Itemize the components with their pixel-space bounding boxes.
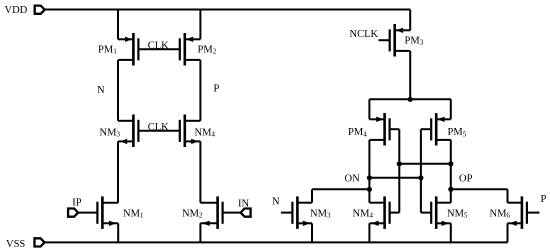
junction line A right (448, 161, 453, 166)
wire tail node distribution (369, 98, 450, 100)
junction line B right (418, 175, 423, 180)
svg-text:N: N (272, 197, 280, 208)
NM3-right channel (296, 196, 299, 229)
wire N stub to NM3 gate (281, 212, 293, 214)
wire OP down to NM6 drain (507, 189, 509, 202)
NM2 gate bar (222, 202, 224, 224)
junction line B left (367, 175, 372, 180)
NM5 channel (435, 196, 438, 229)
junction OP (448, 187, 453, 192)
NM6 drain/source bottom lead (508, 222, 522, 224)
svg-text:VSS: VSS (6, 239, 25, 250)
NM4-right channel (383, 196, 386, 229)
wire down to PM4 source (368, 99, 370, 119)
NM3-right drain/source bottom lead (297, 222, 312, 224)
NM6 source arrow (NMOS) (510, 221, 517, 226)
NM4-right drain/source bottom lead (369, 222, 384, 224)
PM1 gate bar (137, 38, 139, 60)
svg-text:P: P (214, 84, 220, 95)
wire IN to NM2 gate (223, 212, 241, 214)
PM5 channel (435, 113, 438, 146)
PM3 gate bar (389, 29, 391, 51)
PM1 source arrow (PMOS) (125, 37, 132, 42)
PM3 source arrow (PMOS) (396, 28, 403, 33)
wire VDD rail down to PM3 source (409, 10, 411, 31)
junction PM3 drain node (408, 97, 413, 102)
NM4-right drain/source top lead (369, 202, 384, 204)
NM6 drain/source top lead (508, 202, 522, 204)
svg-text:OP: OP (459, 174, 473, 185)
NM2 drain/source bottom lead (200, 222, 217, 224)
wire IP to NM1 gate (78, 212, 97, 214)
PM2 drain/source bottom lead (185, 59, 201, 61)
PM2 channel (184, 33, 187, 66)
PM2 drain/source top lead (185, 38, 201, 40)
svg-text:CLK: CLK (148, 40, 169, 51)
NM3-right gate lead (291, 212, 293, 214)
wire NM3 source to VSS (311, 223, 313, 242)
NM6 channel (521, 196, 524, 229)
IN port (241, 209, 251, 217)
NM2 source arrow (NMOS) (202, 221, 209, 226)
NM1 channel (101, 196, 104, 229)
wire PM5 gate / NM5 gate vertical (420, 129, 422, 212)
wire NM1 source to VSS (117, 223, 119, 242)
wire PM4 drain down to ON / NM4 drain (368, 140, 370, 203)
PM1 drain/source top lead (118, 38, 133, 40)
NM3-left drain/source top lead (118, 120, 133, 122)
wire PM1 source from VDD rail (117, 10, 119, 40)
NM4-left drain/source top lead (185, 120, 201, 122)
wire cross-couple line B (gates of PM5/NM5 to ON) (369, 177, 421, 179)
PM4 gate bar (389, 118, 391, 140)
NM4-right gate lead (390, 212, 400, 214)
NM1 drain/source bottom lead (102, 222, 118, 224)
PM3 channel (393, 24, 396, 57)
NM6 gate bar (526, 202, 528, 224)
NM3-left channel (132, 115, 135, 148)
PM2 gate lead (179, 48, 181, 50)
NM1 gate lead (96, 212, 98, 214)
svg-text:ON: ON (345, 173, 361, 184)
PM4 drain/source top lead (369, 118, 384, 120)
wire PM3 drain down (409, 51, 411, 99)
NM6 gate lead (527, 212, 540, 214)
svg-text:P: P (541, 194, 547, 205)
wire down to PM5 source (450, 99, 452, 119)
wire cross-couple line A (gates of PM4/NM4 to OP) (399, 163, 451, 165)
junction line A left (397, 161, 402, 166)
PM5 gate bar (430, 118, 432, 140)
NM5 gate bar (430, 202, 432, 224)
PM5 drain/source top lead (436, 118, 451, 120)
wire NM4 source to VSS (368, 223, 370, 242)
NM1 source arrow (NMOS) (109, 221, 116, 226)
NM3-left gate bar (137, 120, 139, 142)
NM4-left channel (184, 115, 187, 148)
NM5 drain/source bottom lead (436, 222, 451, 224)
NM2 gate lead (222, 212, 224, 214)
NM4-left gate lead (179, 130, 181, 132)
PM4 source arrow (PMOS) (376, 117, 383, 122)
PM3 drain/source bottom lead (395, 50, 411, 52)
wire PM4 gate / NM4 gate vertical (398, 129, 400, 212)
NM2 channel (216, 196, 219, 229)
node N wire (PM1 drain to NM3 drain) (117, 60, 119, 121)
VSS port (35, 238, 45, 246)
PM1 gate lead (138, 48, 180, 50)
NM4-right source arrow (NMOS) (371, 221, 378, 226)
svg-text:VDD: VDD (5, 5, 28, 16)
PM2 source arrow (PMOS) (186, 37, 193, 42)
NM4-left drain/source bottom lead (185, 140, 201, 142)
wire NM2 source to VSS (199, 223, 201, 242)
IP port (68, 209, 78, 217)
PM1 channel (132, 33, 135, 66)
wire PM5 drain down to OP / NM5 drain (450, 140, 452, 203)
NM4-right gate bar (389, 202, 391, 224)
NM3-right gate bar (291, 202, 293, 224)
svg-text:NCLK: NCLK (350, 29, 379, 40)
node P wire (PM2 drain to NM4 drain) (199, 60, 201, 121)
wire NM4 source to NM2 drain (199, 141, 201, 202)
PM5 source arrow (PMOS) (437, 117, 444, 122)
PM2 gate bar (179, 38, 181, 60)
wire VSS rail (45, 241, 508, 243)
wire NM5 source to VSS (450, 223, 452, 242)
NM5 gate lead (421, 212, 431, 214)
VDD port (35, 6, 45, 14)
NM3-right drain/source top lead (297, 202, 312, 204)
NM4-left source arrow (NMOS) (191, 139, 198, 144)
wire NM3 drain up to ON line (311, 189, 313, 202)
wire ON line (312, 188, 369, 190)
PM4 drain/source bottom lead (369, 139, 384, 141)
NM3-left source arrow (NMOS) (120, 139, 127, 144)
PM4 gate lead (390, 128, 400, 130)
wire OP line (451, 188, 508, 190)
PM1 drain/source bottom lead (118, 59, 133, 61)
PM3 gate lead (379, 39, 390, 41)
svg-text:N: N (97, 85, 105, 96)
wire VDD rail (45, 9, 411, 11)
svg-text:CLK: CLK (148, 122, 169, 133)
svg-text:IP: IP (72, 197, 81, 208)
wire NM3 source to NM1 drain (117, 141, 119, 202)
NM2 drain/source top lead (200, 202, 217, 204)
junction ON (367, 187, 372, 192)
wire PM2 source from VDD rail (199, 10, 201, 40)
PM5 drain/source bottom lead (436, 139, 451, 141)
PM3 drain/source top lead (395, 29, 411, 31)
NM5 drain/source top lead (436, 202, 451, 204)
wire NM6 source to VSS (507, 223, 509, 242)
NM1 gate bar (96, 202, 98, 224)
NM3-left gate lead (138, 130, 180, 132)
NM1 drain/source top lead (102, 202, 118, 204)
NM3-left drain/source bottom lead (118, 140, 133, 142)
PM5 gate lead (421, 128, 431, 130)
NM3-right source arrow (NMOS) (303, 221, 310, 226)
NM4-left gate bar (179, 120, 181, 142)
PM4 channel (383, 113, 386, 146)
NM5 source arrow (NMOS) (442, 221, 449, 226)
